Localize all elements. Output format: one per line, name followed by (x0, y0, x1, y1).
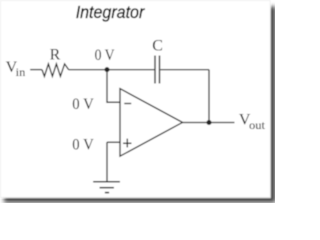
node A junction dot (105, 67, 110, 72)
capacitor C left plate (154, 56, 156, 84)
svg-text:out: out (249, 120, 266, 132)
node B junction dot (207, 120, 212, 125)
svg-text:R: R (50, 46, 61, 63)
wire non-inverting input (107, 141, 120, 143)
op-amp U1 triangle (120, 89, 183, 157)
wire inverting input (107, 70, 120, 103)
resistor R (42, 64, 69, 76)
ground (93, 181, 120, 183)
wire Vin lead (30, 69, 42, 71)
svg-text:in: in (16, 65, 26, 79)
plus symbol (123, 139, 131, 148)
wire resistor to capacitor (69, 69, 155, 71)
svg-text:C: C (152, 37, 163, 54)
svg-text:Integrator: Integrator (76, 2, 146, 22)
svg-text:0 V: 0 V (72, 137, 94, 154)
svg-text:0 V: 0 V (72, 96, 94, 113)
wire capacitor to feedback corner (160, 69, 209, 71)
output wire (183, 122, 235, 124)
svg-text:0 V: 0 V (95, 47, 115, 64)
wire feedback vertical (208, 70, 210, 123)
capacitor C right plate (159, 56, 161, 84)
wire ground vertical (106, 142, 108, 182)
minus symbol (124, 103, 131, 105)
